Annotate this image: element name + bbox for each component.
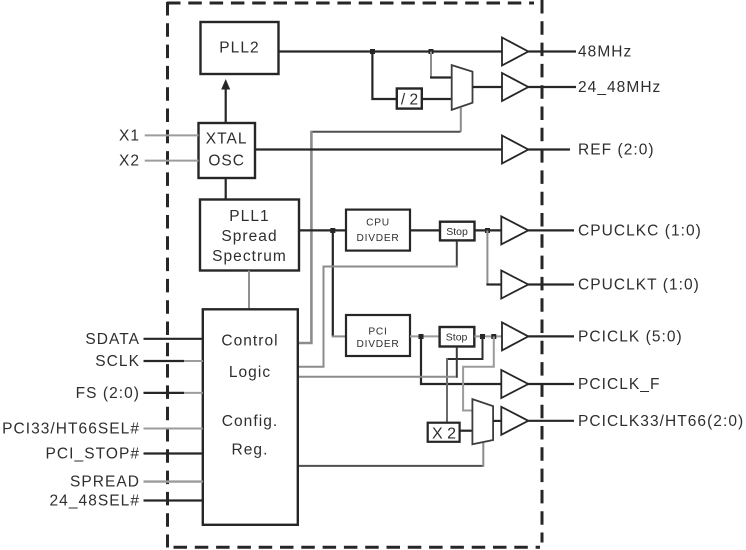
block XTAL OSC — [199, 123, 256, 178]
junction on N48 at /2 tap — [370, 49, 375, 54]
svg-text:X1: X1 — [119, 127, 140, 144]
wire into PCI divider input — [332, 335, 346, 337]
svg-text:PCI33/HT66SEL#: PCI33/HT66SEL# — [2, 421, 140, 438]
svg-text:OSC: OSC — [208, 153, 245, 170]
svg-text:PCI: PCI — [368, 327, 387, 338]
junction on NCPU feeding PCI divider — [330, 228, 335, 233]
block PCI DIVDER — [346, 315, 410, 356]
divider /2 box — [397, 89, 422, 109]
wire NPCI tap to mux M2 input 0 — [463, 336, 494, 410]
wire PCI Stop control from control logic — [298, 376, 456, 378]
svg-text:24_48SEL#: 24_48SEL# — [50, 493, 140, 510]
svg-text:PCICLK_F: PCICLK_F — [578, 376, 660, 393]
wire CPUCLK tap down to CPUCLKT buffer — [486, 230, 488, 284]
wire /2 output to mux M1 input 1 — [422, 98, 452, 100]
output wire PCICLK33/HT66 — [528, 420, 574, 422]
svg-text:CPU: CPU — [366, 218, 390, 229]
mux M2 (PCICLK33/HT66 select) — [472, 399, 493, 444]
wire CPU divider to Stop — [410, 229, 439, 231]
wire PLL1 down to control logic — [248, 271, 250, 310]
wire PCI divider to Stop (net NPCIF) — [410, 335, 439, 337]
wire X2 output to mux M2 input 1 — [460, 430, 473, 432]
svg-text:Reg.: Reg. — [232, 442, 269, 459]
buffer CPUCLKT — [501, 271, 528, 299]
wire PLL2 output to 48MHz buffer (net N48) — [279, 50, 503, 52]
wire mux M2 select from control logic — [298, 465, 484, 467]
svg-text:CPUCLKC (1:0): CPUCLKC (1:0) — [578, 222, 702, 239]
output wire PCICLK_F — [528, 383, 574, 385]
svg-text:Spectrum: Spectrum — [212, 248, 287, 265]
output wire REF — [528, 148, 570, 150]
svg-text:Logic: Logic — [229, 364, 271, 381]
input wire SCLK — [144, 360, 185, 362]
block Control Logic / Config Reg — [203, 309, 298, 525]
input wire X1 — [145, 134, 199, 136]
chip boundary dashed border — [167, 0, 542, 548]
svg-text:FS (2:0): FS (2:0) — [76, 385, 140, 402]
input wire SPREAD — [144, 480, 203, 482]
svg-text:Stop: Stop — [446, 226, 468, 238]
wire NPCIF tap down and right to PCICLK_F buffer — [421, 336, 501, 384]
wire into CPUCLKT buffer — [486, 283, 501, 285]
wire Stop output to PCICLK buffer (net NPCI) — [474, 335, 502, 337]
block X2 multiplier — [428, 423, 460, 443]
output wire CPUCLKT — [528, 283, 574, 285]
input wire PCI33/HT66SEL# — [144, 428, 203, 430]
block PLL1 Spread Spectrum — [200, 200, 299, 271]
svg-text:XTAL: XTAL — [206, 131, 248, 148]
input wire PCI_STOP# — [144, 452, 203, 454]
svg-text:DIVDER: DIVDER — [357, 233, 400, 244]
junction on N48 at mux tap — [429, 49, 434, 54]
wire CPU Stop control from control logic — [456, 241, 458, 267]
svg-text:24_48MHz: 24_48MHz — [578, 79, 661, 96]
svg-text:48MHz: 48MHz — [578, 44, 632, 61]
junction CPUCLK net — [485, 228, 490, 233]
wire mux M2 output to PCICLK33 buffer — [493, 420, 501, 422]
block CPU DIVDER — [346, 210, 410, 251]
buffer 48MHz — [502, 38, 528, 66]
buffer 24_48MHz — [502, 73, 528, 101]
wire NCPU tap down to PCI divider input — [332, 230, 334, 336]
svg-text:X2: X2 — [119, 153, 140, 170]
buffer CPUCLKC — [501, 216, 528, 244]
svg-text:Config.: Config. — [222, 413, 278, 430]
output wire 48MHz — [528, 50, 576, 52]
block Stop (CPU) — [440, 222, 475, 241]
input wire FS (2:0) — [144, 392, 185, 394]
arrowhead into PLL2 — [221, 79, 230, 90]
input wire X2 — [145, 160, 199, 162]
input wire 24_48SEL# — [144, 499, 203, 501]
wire XTAL OSC up to PLL2 with arrow — [225, 88, 227, 123]
svg-text:Spread: Spread — [221, 228, 277, 245]
svg-text:DIVDER: DIVDER — [357, 339, 400, 350]
buffer PCICLK33/HT66 — [501, 407, 528, 435]
wire N48 tap down to mux M1 input 0 — [430, 52, 432, 78]
junction NPCI mux tap — [491, 334, 496, 339]
buffer REF — [502, 136, 528, 164]
wire mux M1 select to control logic — [460, 108, 462, 132]
junction NPCIF free-running tap — [419, 334, 424, 339]
buffer PCICLK — [502, 322, 528, 350]
block Stop (PCI) — [440, 327, 475, 347]
wire PLL1 output to CPU divider (net NCPU) — [299, 229, 346, 231]
block PLL2 — [201, 22, 279, 74]
svg-text:X 2: X 2 — [432, 426, 456, 443]
wire N48 tap down to /2 input — [372, 52, 396, 100]
buffer PCICLK_F — [501, 370, 528, 398]
input wire SDATA — [144, 338, 203, 340]
wire NPCI tap down to X2 input — [447, 336, 483, 359]
svg-text:Control: Control — [221, 333, 278, 350]
svg-text:PCICLK (5:0): PCICLK (5:0) — [578, 328, 683, 345]
svg-text:REF (2:0): REF (2:0) — [578, 142, 655, 159]
svg-text:SDATA: SDATA — [85, 331, 140, 348]
wire XTAL OSC down to PLL1 — [225, 178, 227, 200]
junction NPCI X2 tap — [480, 334, 485, 339]
svg-text:PCICLK33/HT66(2:0): PCICLK33/HT66(2:0) — [578, 413, 744, 430]
svg-text:SCLK: SCLK — [95, 353, 140, 370]
output wire PCICLK — [528, 335, 574, 337]
wire Stop output to CPUCLKC buffer — [475, 229, 502, 231]
svg-text:/ 2: / 2 — [401, 92, 418, 109]
output wire CPUCLKC — [528, 229, 574, 231]
output wire 24_48MHz — [528, 86, 576, 88]
wire mux M1 output to 24_48MHz buffer — [473, 86, 503, 88]
svg-text:PLL1: PLL1 — [229, 208, 269, 225]
mux M1 (24/48 select) — [452, 65, 473, 110]
svg-text:PLL2: PLL2 — [219, 40, 259, 57]
svg-text:CPUCLKT (1:0): CPUCLKT (1:0) — [578, 277, 700, 294]
svg-text:PCI_STOP#: PCI_STOP# — [46, 446, 140, 463]
svg-text:SPREAD: SPREAD — [70, 474, 140, 491]
svg-text:Stop: Stop — [446, 332, 468, 344]
wire XTAL OSC output to REF buffer — [255, 148, 502, 150]
